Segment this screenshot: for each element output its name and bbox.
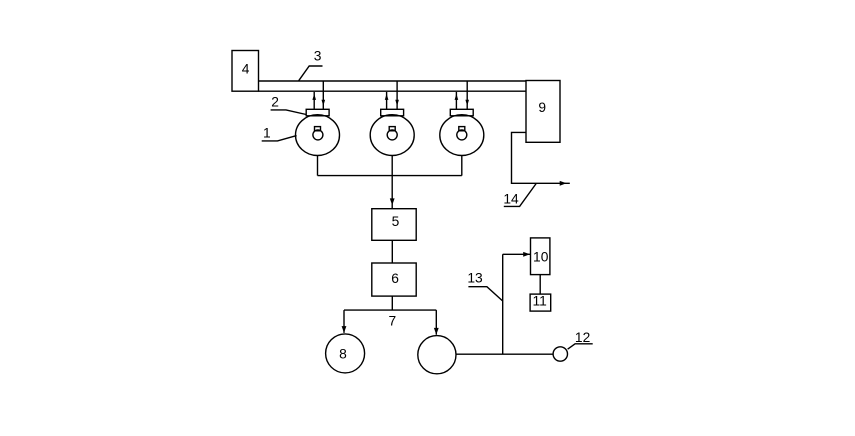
leader for label 2 <box>271 110 307 115</box>
svg-text:10: 10 <box>533 250 549 265</box>
wire box 5 to box 6 <box>391 240 393 263</box>
box 9 <box>526 81 560 143</box>
wire down to circle 8 with arrow <box>342 310 347 333</box>
collector line <box>318 175 462 177</box>
box 6 <box>372 263 416 296</box>
svg-text:1: 1 <box>263 126 271 141</box>
machine 3 inner circle <box>457 130 467 140</box>
box 11 <box>530 294 551 311</box>
box 5 <box>372 209 416 241</box>
svg-text:11: 11 <box>533 294 547 309</box>
leader for label 3 <box>299 66 323 81</box>
machine 2 down arrow <box>395 91 399 109</box>
box 4 (fuel tank) <box>232 51 259 92</box>
svg-text:5: 5 <box>392 214 400 229</box>
svg-text:3: 3 <box>314 49 322 64</box>
machine 1 down arrow <box>322 91 326 109</box>
machine 1 outlet stub <box>317 156 319 176</box>
machine 2 body circle <box>370 115 414 156</box>
machine 2 inner circle <box>387 130 397 140</box>
duct tap M1 <box>322 81 324 91</box>
svg-text:14: 14 <box>503 192 519 207</box>
duct tap M3 <box>466 81 468 91</box>
wire collector to box 5 with arrow <box>390 176 395 209</box>
machine 3 body circle <box>440 115 484 156</box>
circle 12 <box>553 347 567 361</box>
machine 2 inner square <box>389 127 395 131</box>
svg-text:9: 9 <box>538 100 546 115</box>
svg-text:7: 7 <box>388 314 396 329</box>
machine 3 up arrow <box>455 92 459 109</box>
wire box 6 down <box>391 296 393 310</box>
exhaust arrow 14 <box>560 181 567 186</box>
leader for label 12 <box>568 344 593 349</box>
machine 2 inlet rect <box>381 109 404 116</box>
machine 3 outlet stub <box>461 156 463 176</box>
machine 3 inner square <box>459 127 465 131</box>
svg-text:2: 2 <box>271 95 279 110</box>
wire down to burner circle with arrow <box>434 310 439 335</box>
circle 8 <box>326 334 365 373</box>
machine 1 body circle <box>296 115 340 156</box>
svg-text:13: 13 <box>467 270 483 285</box>
wire box 10 to box 11 <box>539 275 541 295</box>
machine 2 outlet stub <box>391 156 393 176</box>
distribution line 7 <box>344 309 436 311</box>
svg-text:6: 6 <box>391 271 399 286</box>
wire burner to circle 12 <box>456 353 553 355</box>
leader for label 13 <box>468 287 502 301</box>
leader for label 1 <box>262 136 297 141</box>
machine 3 down arrow <box>465 91 469 109</box>
wire box 9 exhaust <box>512 132 570 183</box>
svg-text:4: 4 <box>242 61 250 76</box>
duct 3 top line <box>259 80 527 82</box>
wire 13 to box 10 with arrow <box>503 252 531 257</box>
duct tap M2 <box>396 81 398 91</box>
machine 1 up arrow <box>312 92 316 109</box>
machine 1 inner square <box>315 127 321 131</box>
svg-text:8: 8 <box>339 346 347 361</box>
machine 3 inlet rect <box>450 109 473 116</box>
machine 2 up arrow <box>385 92 389 109</box>
burner circle <box>418 336 456 374</box>
box 10 <box>531 238 550 275</box>
leader for label 14 <box>504 184 536 207</box>
svg-text:12: 12 <box>575 330 590 345</box>
duct 3 bottom line <box>259 90 527 92</box>
machine 1 inlet rect (element 2) <box>306 109 329 116</box>
wire 13 vertical <box>502 254 504 354</box>
machine 1 inner circle <box>313 130 323 140</box>
